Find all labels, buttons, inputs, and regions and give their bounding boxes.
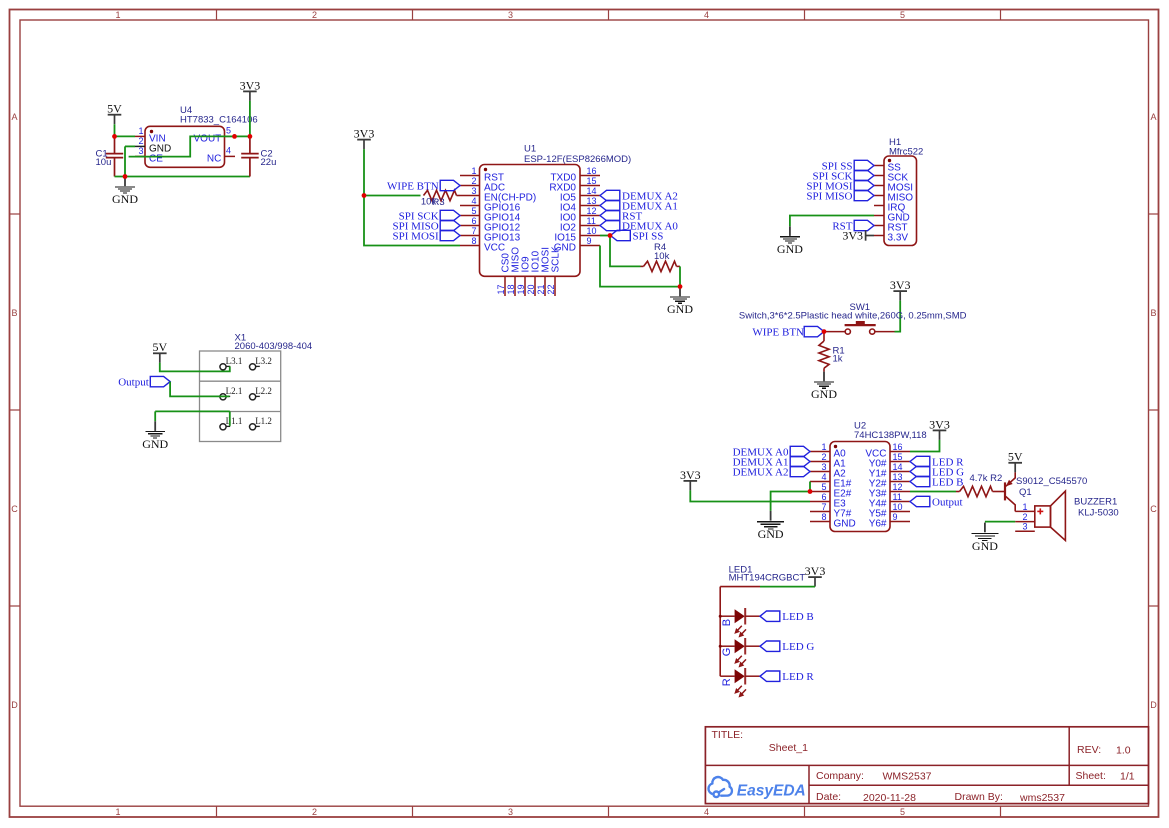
svg-text:5: 5 xyxy=(900,807,905,817)
svg-text:U1: U1 xyxy=(524,143,536,154)
svg-text:12: 12 xyxy=(587,206,597,216)
svg-text:WIPE BTN: WIPE BTN xyxy=(752,326,804,338)
svg-text:A: A xyxy=(11,112,17,122)
svg-text:3V3: 3V3 xyxy=(240,78,261,92)
svg-text:16: 16 xyxy=(893,442,903,452)
svg-text:Switch,3*6*2.5Plastic head whi: Switch,3*6*2.5Plastic head white,260G, 0… xyxy=(739,310,967,321)
svg-text:LED G: LED G xyxy=(782,641,814,653)
svg-text:10: 10 xyxy=(893,502,903,512)
svg-text:8: 8 xyxy=(821,512,826,522)
svg-text:L1.2: L1.2 xyxy=(255,416,272,426)
svg-text:5V: 5V xyxy=(1008,450,1023,464)
svg-text:5V: 5V xyxy=(107,102,122,116)
svg-text:1/1: 1/1 xyxy=(1120,770,1135,782)
svg-text:Date:: Date: xyxy=(816,791,841,803)
svg-text:L1.1: L1.1 xyxy=(226,416,243,426)
svg-text:Output: Output xyxy=(932,496,963,508)
svg-text:1: 1 xyxy=(1022,502,1027,512)
svg-text:MHT194CRGBCT: MHT194CRGBCT xyxy=(729,573,806,584)
svg-text:L2.2: L2.2 xyxy=(255,386,272,396)
svg-text:3.3V: 3.3V xyxy=(888,233,909,244)
svg-text:NC: NC xyxy=(207,153,221,164)
svg-text:1: 1 xyxy=(138,126,143,136)
svg-text:KLJ-5030: KLJ-5030 xyxy=(1078,508,1119,519)
svg-text:2: 2 xyxy=(1022,512,1027,522)
svg-text:5: 5 xyxy=(821,482,826,492)
svg-text:1: 1 xyxy=(821,442,826,452)
svg-text:VCC: VCC xyxy=(484,243,505,254)
svg-text:22u: 22u xyxy=(261,157,277,168)
svg-text:Company:: Company: xyxy=(816,770,864,782)
svg-text:DEMUX A2: DEMUX A2 xyxy=(733,466,789,478)
svg-text:11: 11 xyxy=(893,492,902,502)
svg-text:D: D xyxy=(11,700,18,710)
svg-text:4: 4 xyxy=(704,807,709,817)
svg-text:4: 4 xyxy=(704,10,709,20)
svg-text:6: 6 xyxy=(471,216,476,226)
svg-text:3: 3 xyxy=(508,10,513,20)
svg-text:LED R: LED R xyxy=(782,671,814,683)
svg-text:11: 11 xyxy=(587,216,596,226)
svg-text:5: 5 xyxy=(471,206,476,216)
svg-text:2060-403/998-404: 2060-403/998-404 xyxy=(235,341,313,352)
svg-text:5: 5 xyxy=(900,10,905,20)
svg-text:C: C xyxy=(11,504,18,514)
svg-text:2: 2 xyxy=(312,10,317,20)
svg-text:SPI SS: SPI SS xyxy=(633,230,664,242)
svg-text:3: 3 xyxy=(138,146,143,156)
svg-text:G: G xyxy=(721,648,733,657)
svg-text:3V3: 3V3 xyxy=(354,127,375,141)
svg-text:3V3: 3V3 xyxy=(842,229,863,243)
svg-text:B: B xyxy=(11,308,17,318)
svg-text:C: C xyxy=(1150,504,1157,514)
svg-text:EasyEDA: EasyEDA xyxy=(737,782,806,799)
svg-text:5: 5 xyxy=(226,126,231,136)
svg-text:3: 3 xyxy=(508,807,513,817)
svg-text:Sheet_1: Sheet_1 xyxy=(769,742,808,754)
svg-text:R3: R3 xyxy=(433,197,445,208)
svg-text:12: 12 xyxy=(893,482,903,492)
svg-text:2: 2 xyxy=(138,136,143,146)
svg-text:B: B xyxy=(1150,308,1156,318)
svg-text:5V: 5V xyxy=(152,340,167,354)
svg-text:wms2537: wms2537 xyxy=(1019,792,1065,804)
svg-text:18: 18 xyxy=(506,284,516,294)
svg-text:1: 1 xyxy=(115,807,120,817)
svg-text:14: 14 xyxy=(893,462,903,472)
svg-text:3V3: 3V3 xyxy=(805,564,826,578)
svg-text:S9012_C545570: S9012_C545570 xyxy=(1016,476,1087,487)
svg-text:L2.1: L2.1 xyxy=(226,386,243,396)
svg-text:D: D xyxy=(1150,700,1157,710)
svg-text:ESP-12F(ESP8266MOD): ESP-12F(ESP8266MOD) xyxy=(524,154,631,165)
svg-text:9: 9 xyxy=(587,236,592,246)
svg-text:3: 3 xyxy=(471,186,476,196)
svg-text:HT7833_C164106: HT7833_C164106 xyxy=(180,115,258,126)
svg-text:SPI MISO: SPI MISO xyxy=(806,190,852,202)
svg-text:VOUT: VOUT xyxy=(194,133,222,144)
svg-text:4: 4 xyxy=(821,472,826,482)
svg-text:2020-11-28: 2020-11-28 xyxy=(863,792,916,804)
svg-text:LED B: LED B xyxy=(782,611,813,623)
svg-text:3: 3 xyxy=(1022,522,1027,532)
svg-text:GND: GND xyxy=(834,519,856,530)
svg-text:1: 1 xyxy=(115,10,120,20)
svg-text:Y6#: Y6# xyxy=(869,519,887,530)
svg-text:9: 9 xyxy=(893,512,898,522)
svg-text:3: 3 xyxy=(821,462,826,472)
svg-text:1k: 1k xyxy=(833,353,843,364)
svg-text:14: 14 xyxy=(587,186,597,196)
svg-text:Q1: Q1 xyxy=(1019,487,1032,498)
svg-text:CE: CE xyxy=(149,153,163,164)
svg-text:3V3: 3V3 xyxy=(680,468,701,482)
svg-text:TITLE:: TITLE: xyxy=(712,729,744,741)
svg-text:R: R xyxy=(721,678,733,686)
svg-text:SCLK: SCLK xyxy=(551,246,562,272)
svg-text:3V3: 3V3 xyxy=(890,278,911,292)
svg-text:1: 1 xyxy=(471,166,476,176)
svg-text:19: 19 xyxy=(516,284,526,294)
svg-text:4: 4 xyxy=(226,146,231,156)
svg-text:13: 13 xyxy=(893,472,903,482)
svg-text:3V3: 3V3 xyxy=(929,417,950,431)
svg-text:10u: 10u xyxy=(96,157,112,168)
svg-text:2: 2 xyxy=(312,807,317,817)
svg-text:2: 2 xyxy=(821,452,826,462)
svg-text:8: 8 xyxy=(471,236,476,246)
svg-text:REV:: REV: xyxy=(1077,744,1101,756)
svg-text:2: 2 xyxy=(471,176,476,186)
svg-text:WMS2537: WMS2537 xyxy=(883,770,932,782)
svg-text:13: 13 xyxy=(587,196,597,206)
svg-text:SPI MOSI: SPI MOSI xyxy=(393,230,439,242)
svg-text:Drawn By:: Drawn By: xyxy=(955,791,1003,803)
svg-text:17: 17 xyxy=(496,284,506,294)
svg-text:10k: 10k xyxy=(654,251,670,262)
svg-text:22: 22 xyxy=(546,284,556,294)
svg-text:6: 6 xyxy=(821,492,826,502)
svg-text:4: 4 xyxy=(471,196,476,206)
svg-text:10: 10 xyxy=(587,226,597,236)
svg-text:7: 7 xyxy=(821,502,826,512)
svg-text:Output: Output xyxy=(118,377,149,389)
svg-text:20: 20 xyxy=(526,284,536,294)
svg-text:7: 7 xyxy=(471,226,476,236)
svg-text:BUZZER1: BUZZER1 xyxy=(1074,497,1117,508)
svg-text:15: 15 xyxy=(587,176,597,186)
svg-text:15: 15 xyxy=(893,452,903,462)
svg-text:1.0: 1.0 xyxy=(1116,745,1131,757)
svg-text:B: B xyxy=(721,619,733,626)
svg-text:WIPE BTN: WIPE BTN xyxy=(387,180,439,192)
svg-text:L3.1: L3.1 xyxy=(226,356,243,366)
svg-text:LED B: LED B xyxy=(932,476,963,488)
svg-text:Sheet:: Sheet: xyxy=(1076,770,1106,782)
svg-text:21: 21 xyxy=(536,284,546,294)
svg-text:L3.2: L3.2 xyxy=(255,356,272,366)
svg-text:A: A xyxy=(1150,112,1156,122)
svg-text:16: 16 xyxy=(587,166,597,176)
svg-text:74HC138PW,118: 74HC138PW,118 xyxy=(854,430,927,441)
svg-text:4.7k R2: 4.7k R2 xyxy=(970,473,1003,484)
